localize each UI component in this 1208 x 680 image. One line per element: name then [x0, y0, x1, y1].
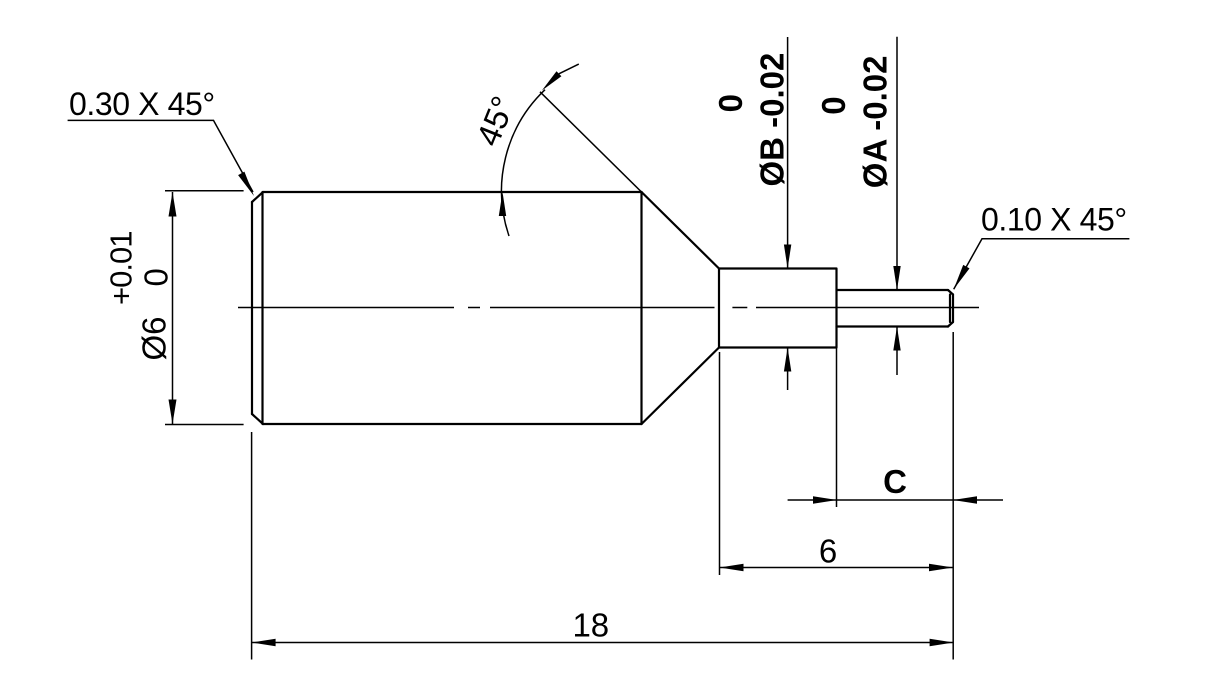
big cylinder left chamfer edge line — [261, 192, 263, 424]
leader 0.30x45 polyline — [68, 120, 253, 192]
big cylinder bottom edge — [263, 423, 642, 425]
small shaft bottom edge — [837, 325, 949, 327]
dim 18 extension line left — [251, 432, 253, 660]
svg-text:18: 18 — [572, 607, 609, 644]
dim B dimension line bottom — [787, 348, 789, 391]
shaft right end face — [952, 295, 954, 323]
arrowhead dim 18 left — [252, 639, 276, 646]
dim Ø6 dimension line — [172, 192, 174, 424]
big cylinder top edge — [263, 191, 642, 193]
svg-text:ØB -0.02: ØB -0.02 — [754, 53, 791, 187]
arrowhead dim 6 right — [929, 564, 953, 571]
arrowhead dim B bottom — [784, 348, 791, 372]
arrowhead leader 0.10x45 — [954, 265, 970, 289]
dim C dimension line left — [788, 499, 1003, 501]
leader 0.10x45 polyline — [954, 239, 1130, 289]
dim C extension line — [836, 348, 838, 508]
arrowhead dim 18 right — [930, 639, 954, 646]
arrowhead dim Ø6 top — [169, 192, 177, 217]
45deg dimension arc — [502, 90, 545, 236]
dim B dimension line top — [787, 37, 789, 269]
svg-text:C: C — [883, 463, 907, 500]
svg-text:+0.01: +0.01 — [104, 232, 139, 305]
part outline: main cylinder body — [252, 192, 953, 424]
big cylinder right face — [640, 192, 642, 424]
chamfer bottom-left diagonal — [252, 414, 263, 424]
arrowhead dim 6 left — [720, 564, 744, 571]
arrowhead dim A bottom — [893, 327, 900, 351]
big cylinder left outer face — [251, 202, 253, 414]
45deg angle extension line — [540, 92, 642, 192]
arrowhead 45deg arc bottom — [499, 192, 506, 216]
arrowhead leader 0.30x45 — [238, 172, 254, 196]
svg-text:0.10 X 45°: 0.10 X 45° — [981, 202, 1127, 238]
svg-text:0: 0 — [138, 268, 175, 286]
dim A dimension line bottom — [896, 327, 898, 376]
arrowhead 45deg arc top — [542, 71, 562, 90]
shaft chamfer edge line — [949, 295, 951, 323]
dim Ø6 extension line top — [165, 190, 244, 192]
dim 6 extension line left — [719, 352, 721, 575]
svg-text:45°: 45° — [469, 91, 522, 151]
shaft chamfer bottom diagonal — [948, 322, 953, 327]
arrowhead dim C right — [953, 496, 977, 503]
svg-text:Ø6: Ø6 — [136, 316, 173, 360]
dim Ø6 extension line bottom — [165, 424, 244, 426]
svg-text:0.30 X 45°: 0.30 X 45° — [69, 86, 215, 122]
right extension line shared by 6 C 18 — [952, 332, 954, 660]
45deg arc arrow tail — [559, 64, 579, 74]
dim A dimension line top — [896, 37, 898, 290]
taper bottom 45 deg — [642, 348, 720, 425]
arrowhead dim Ø6 bottom — [169, 400, 177, 425]
dim 18 dimension line — [252, 642, 954, 644]
chamfer top-left diagonal — [252, 192, 263, 202]
dim 6 dimension line — [720, 567, 954, 569]
centerline — [238, 307, 979, 309]
mid cylinder outline — [719, 269, 837, 348]
shaft chamfer top diagonal — [948, 290, 953, 295]
small shaft top edge — [837, 289, 949, 291]
arrowhead dim C left — [813, 496, 837, 503]
svg-text:6: 6 — [819, 533, 837, 570]
arrowhead dim A top — [893, 266, 900, 290]
svg-text:ØA -0.02: ØA -0.02 — [857, 56, 894, 189]
arrowhead dim B top — [784, 245, 791, 269]
taper top 45 deg — [642, 192, 720, 269]
svg-text:0: 0 — [815, 96, 852, 114]
svg-text:0: 0 — [712, 94, 749, 112]
